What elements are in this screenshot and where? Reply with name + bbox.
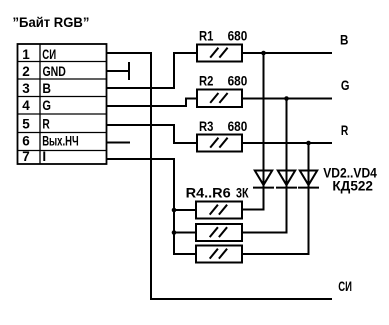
svg-text:7: 7 (22, 149, 30, 164)
resistor R3 body (197, 135, 242, 152)
resistor R3 value 680 (228, 119, 248, 134)
wire G node down through VD3 to R5 (242, 99, 287, 233)
svg-text:680: 680 (228, 29, 248, 44)
resistor R2 designator label (199, 74, 213, 89)
resistor R4 body (196, 202, 242, 219)
junction node at R1 output (261, 51, 266, 56)
svg-text:5: 5 (22, 117, 30, 132)
svg-text:G: G (341, 78, 350, 93)
resistor R2 body (197, 90, 242, 108)
title "Байт RGB" (13, 15, 90, 30)
output terminal label B (340, 33, 348, 48)
svg-text:КД522: КД522 (332, 179, 373, 194)
svg-text:R1: R1 (199, 29, 213, 44)
wire R5 left branch (174, 232, 196, 234)
resistor R1 body (197, 45, 242, 62)
output terminal label G (341, 78, 350, 93)
diode VD4 (298, 171, 319, 188)
wire R4 left branch (174, 209, 196, 211)
svg-text:R: R (341, 123, 349, 139)
diode VD3 (276, 171, 297, 188)
wire R node down through VD4 to R6 (242, 143, 309, 254)
resistor R5 body (196, 224, 242, 241)
svg-text:4: 4 (22, 98, 30, 113)
svg-text:СИ: СИ (42, 47, 56, 62)
wire pin3 В to R1 (107, 53, 198, 88)
resistor R3 designator label (199, 119, 213, 134)
svg-text:6: 6 (22, 134, 30, 149)
output terminal label СИ (338, 280, 352, 295)
pin 5 label R (42, 116, 50, 132)
pin 2 label GND (43, 64, 67, 80)
wire B node down through VD2 to R4 (242, 53, 264, 210)
svg-text:R4..R6: R4..R6 (186, 185, 231, 200)
svg-text:3К: 3К (236, 186, 249, 202)
wire R2 output to G (242, 98, 332, 100)
svg-text:СИ: СИ (338, 280, 352, 295)
svg-text:I: I (42, 149, 46, 164)
connector X1 table (18, 44, 107, 164)
pin 6 label Вых.НЧ (42, 134, 78, 149)
wire pin4 G to R2 (107, 99, 198, 107)
GND terminator bar (128, 62, 130, 80)
wire pin5 R to R3 (107, 125, 198, 143)
svg-text:В: В (42, 80, 51, 96)
resistor R1 designator label (199, 29, 213, 44)
pin 3 label В (42, 80, 51, 96)
pin 1 label СИ (42, 47, 56, 62)
svg-text:R3: R3 (199, 119, 213, 134)
svg-text:2: 2 (22, 64, 30, 79)
junction node at R3 output (306, 141, 311, 146)
junction node at R4 left (172, 208, 177, 213)
wire pin7 I to R4..R6 left column (107, 159, 197, 254)
svg-text:680: 680 (228, 74, 248, 89)
resistor R1 value 680 (228, 29, 248, 44)
diode group label VD2..VD4 (323, 165, 378, 181)
svg-text:1: 1 (22, 47, 30, 62)
svg-text:”Байт RGB”: ”Байт RGB” (13, 15, 90, 30)
wire pin1 СИ to bottom СИ output (107, 53, 333, 299)
wire R3 output to R (242, 142, 332, 144)
junction node at R2 output (284, 96, 289, 101)
svg-text:3: 3 (22, 81, 30, 96)
svg-text:B: B (340, 33, 348, 48)
output terminal label R (341, 123, 349, 139)
wire R1 output to B (242, 52, 332, 54)
svg-text:G: G (42, 98, 51, 113)
wire pin2 GND stub (107, 70, 130, 72)
svg-text:680: 680 (228, 119, 248, 134)
diode VD2 (253, 171, 274, 188)
svg-text:R: R (42, 116, 50, 132)
junction node at R5 left (172, 230, 177, 235)
svg-text:GND: GND (43, 64, 67, 80)
resistor R4..R6 designator label (186, 185, 231, 200)
wire pin6 Вых.НЧ stub (107, 142, 131, 144)
resistor R2 value 680 (228, 74, 248, 89)
resistor R6 body (196, 246, 242, 263)
pin 4 label G (42, 98, 51, 113)
resistor R4..R6 value 3К (236, 186, 249, 202)
svg-text:Вых.НЧ: Вых.НЧ (42, 134, 78, 149)
diode type label КД522 (332, 179, 373, 194)
svg-text:R2: R2 (199, 74, 213, 89)
